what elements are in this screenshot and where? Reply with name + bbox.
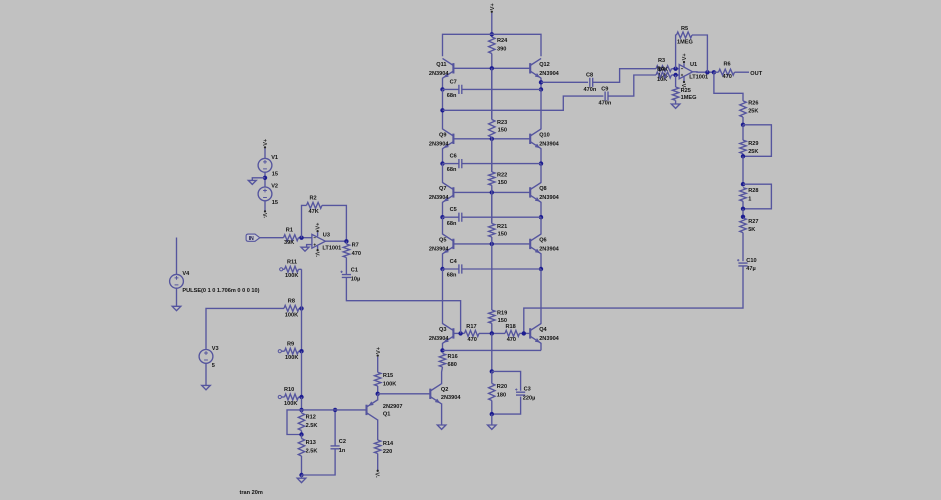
svg-text:U1: U1 [690, 62, 697, 68]
wire C3 bottom to R20 bottom [492, 397, 521, 415]
svg-text:C2: C2 [339, 439, 346, 445]
wire R28 bypass loop [743, 184, 771, 209]
label U3 LT1001 [322, 245, 341, 251]
wire dot to R29 [742, 125, 744, 140]
value R1 39K [284, 240, 294, 246]
svg-text:100K: 100K [285, 355, 298, 361]
label R21 [497, 224, 507, 230]
wire ladder column top [301, 269, 303, 308]
svg-text:2N2907: 2N2907 [383, 404, 403, 410]
label R28 [748, 188, 758, 194]
transistor Q2 [430, 384, 441, 404]
wire Q10 collector up [540, 89, 542, 129]
node cap line left dot [440, 215, 444, 219]
svg-text:R5: R5 [681, 26, 688, 32]
svg-text:2.5K: 2.5K [306, 423, 318, 429]
wire C8 to R3 [593, 69, 656, 83]
wire R14 to V- flag [377, 454, 379, 471]
voltage source V3 [199, 350, 213, 364]
svg-text:470: 470 [468, 337, 477, 343]
svg-text:Q3: Q3 [439, 327, 446, 333]
wire node2 to R22 [491, 139, 493, 172]
label C7 [450, 79, 457, 85]
svg-text:2N3904: 2N3904 [539, 195, 559, 201]
value R7 470 [352, 251, 361, 257]
wire Q5 collector up [442, 217, 444, 234]
voltage source V1 [258, 158, 272, 172]
svg-text:PULSE(0 1 0 1.706m 0 0 0 10): PULSE(0 1 0 1.706m 0 0 0 10) [182, 288, 259, 294]
wire V1 to V2 [264, 172, 266, 187]
wire R5 right leg [692, 35, 707, 72]
wire center node down to R20 node [491, 333, 493, 371]
node C2 top dot [333, 408, 337, 412]
node V1 V2 dot [263, 176, 267, 180]
wire ladder column R9-R10 [301, 351, 303, 397]
wire Q12 emitter down [540, 78, 542, 90]
svg-text:V+: V+ [682, 53, 688, 61]
wire R5 left leg [675, 35, 678, 69]
svg-text:V3: V3 [212, 346, 219, 352]
transistor Q9 [443, 129, 454, 149]
wire R17 to center node [479, 332, 505, 334]
wire Q4 collector up [540, 269, 542, 324]
overlap value 10K [658, 67, 668, 73]
wire R18 to Q4 base [520, 332, 531, 334]
value R22 150 [498, 180, 507, 186]
label R15 [383, 373, 393, 379]
node base row dot [490, 190, 494, 194]
V+ flag above R15 [376, 346, 382, 372]
svg-text:Q4: Q4 [539, 327, 547, 333]
value R11 100K [285, 273, 298, 279]
capacitor C6 [443, 159, 542, 168]
wire Q7 emitter down [442, 202, 444, 217]
value R3 10K [657, 77, 667, 83]
ground below R25 [671, 104, 680, 108]
capacitor C8 [590, 78, 593, 87]
wire out dotB to R6 [714, 71, 719, 73]
transistor Q5 [443, 234, 454, 254]
wire U3 out [325, 240, 346, 242]
transistor Q10 [530, 129, 541, 149]
V- flag below R14 [374, 470, 380, 478]
resistor R4 [656, 72, 672, 78]
wire ladder column R8-R9 [301, 308, 303, 351]
svg-text:C7: C7 [450, 79, 457, 85]
node U1 out dot A [705, 70, 709, 74]
value R9 100K [285, 355, 298, 361]
resistor R10 with open end [278, 394, 301, 400]
capacitor C10 [737, 259, 748, 266]
capacitor C2 [331, 446, 340, 449]
node R12 R13 dot [299, 432, 303, 436]
V+ power flag (top center) [490, 2, 496, 37]
value C2 1n [339, 448, 346, 454]
svg-text:V2: V2 [271, 184, 278, 190]
ground below R13 [297, 475, 306, 483]
svg-text:5: 5 [212, 363, 215, 369]
transistor Q11 [443, 58, 454, 78]
svg-text:220: 220 [383, 449, 392, 455]
label Q3 2N3904 [429, 336, 449, 342]
value R25 1MEG [681, 95, 697, 101]
wire Q5 emitter down [442, 253, 444, 269]
resistor R20 [489, 384, 495, 401]
label R25 [681, 88, 691, 94]
label C10 [746, 258, 756, 264]
wire supply mid to ground [252, 178, 265, 181]
value R29 25K [748, 149, 758, 155]
op-amp U1 [679, 65, 692, 79]
value C3 220u [523, 396, 536, 402]
svg-text:V+: V+ [316, 222, 322, 230]
label C8 [586, 72, 593, 78]
node U1 out dot B [712, 70, 716, 74]
node R9 dot [299, 349, 303, 353]
resistor R14 [375, 440, 381, 454]
svg-text:OUT: OUT [750, 71, 762, 77]
wire R4 to U1 plus [672, 74, 680, 76]
wire node1 to R23 [491, 68, 493, 119]
wire Q8 collector up [540, 164, 542, 183]
svg-text:390: 390 [497, 47, 506, 53]
wire U3 out to R7 [345, 241, 347, 244]
wire collector rail top [443, 34, 542, 56]
svg-text:470: 470 [723, 74, 732, 80]
transistor Q7 [443, 183, 454, 203]
transistor Q1 (PNP) [367, 400, 378, 420]
label U1 [690, 62, 697, 68]
label R20 [497, 384, 507, 390]
svg-text:47µ: 47µ [746, 266, 755, 272]
label Q1 2N2907 [383, 404, 403, 410]
svg-text:150: 150 [498, 318, 507, 324]
node cap line right dot [539, 87, 543, 91]
svg-text:Q7: Q7 [439, 186, 446, 192]
label C1 [351, 268, 358, 274]
label Q6 2N3904 [539, 247, 559, 253]
label R17 [466, 324, 476, 330]
svg-text:470n: 470n [584, 87, 597, 93]
label Q12 [539, 62, 550, 68]
svg-text:Q5: Q5 [439, 238, 446, 244]
svg-text:15: 15 [272, 172, 278, 178]
label Q8 2N3904 [539, 195, 559, 201]
svg-text:C10: C10 [746, 258, 756, 264]
node cap line left dot [440, 161, 444, 165]
svg-text:R15: R15 [383, 373, 393, 379]
wire Q3 emitter down [442, 343, 444, 351]
capacitor C9 [605, 92, 608, 101]
ground below Q2 [437, 425, 446, 429]
svg-text:Q1: Q1 [383, 411, 390, 417]
svg-text:C8: C8 [586, 72, 593, 78]
wire base Q9-Q10 [453, 138, 530, 140]
label R3 [658, 58, 665, 64]
label R26 [748, 100, 758, 106]
wire R12 top stub [301, 410, 303, 413]
label Q5 [439, 238, 446, 244]
svg-text:2N3904: 2N3904 [539, 141, 559, 147]
svg-text:V-: V- [314, 252, 320, 257]
resistor R13 [298, 439, 304, 457]
node R29 bottom dot [741, 154, 745, 158]
value R21 150 [498, 231, 507, 237]
wire R15 to Q1 node [377, 386, 379, 394]
value R18 470 [507, 337, 516, 343]
svg-text:LT1001: LT1001 [689, 74, 708, 80]
svg-text:47K: 47K [309, 209, 319, 215]
svg-text:Q2: Q2 [441, 387, 448, 393]
node R20 top dot [490, 369, 494, 373]
label C4 [450, 259, 458, 265]
value R8 100K [285, 312, 298, 318]
label Q2 [441, 387, 448, 393]
resistor R22 [489, 172, 495, 185]
node B1 left dot [440, 108, 444, 112]
svg-text:2N3904: 2N3904 [429, 247, 449, 253]
label Q12 2N3904 [539, 71, 559, 77]
label R10 [284, 387, 294, 393]
node Q4 base dot [522, 331, 526, 335]
svg-text:V4: V4 [182, 271, 190, 277]
wire Q1 base line [302, 409, 367, 411]
label R2 [310, 196, 317, 202]
svg-text:Q9: Q9 [439, 133, 446, 139]
wire Q4 emitter down [540, 343, 542, 351]
node R1 R2 dot [299, 236, 303, 240]
wire R8 to column [299, 307, 302, 309]
resistor R15 [375, 372, 381, 386]
node base row dot [490, 242, 494, 246]
wire stub above V4 [176, 238, 178, 275]
svg-text:C1: C1 [351, 268, 358, 274]
svg-text:R6: R6 [724, 61, 731, 67]
svg-text:R8: R8 [288, 298, 295, 304]
label Q11 2N3904 [429, 71, 449, 77]
resistor R21 [489, 224, 495, 238]
voltage source V2 [258, 187, 272, 201]
svg-text:100K: 100K [383, 381, 396, 387]
label R19 [497, 311, 507, 317]
svg-text:100K: 100K [284, 401, 297, 407]
svg-text:1MEG: 1MEG [681, 95, 697, 101]
value V2 15 [272, 200, 278, 206]
resistor R29 [740, 140, 746, 153]
node cap line left dot [440, 267, 444, 271]
svg-text:R27: R27 [748, 219, 758, 225]
svg-text:Q12: Q12 [539, 62, 550, 68]
value R14 220 [383, 449, 392, 455]
V- flag below V2 [261, 210, 267, 218]
resistor R8 [284, 305, 299, 311]
label V4 [182, 271, 190, 277]
wire Q6 collector up [540, 217, 542, 234]
node R17R18 dot [490, 331, 494, 335]
wire R29 bypass loop [743, 125, 771, 157]
svg-text:R20: R20 [497, 384, 507, 390]
label Q4 2N3904 [539, 336, 559, 342]
svg-text:V1: V1 [271, 155, 278, 161]
svg-text:R10: R10 [284, 387, 294, 393]
wire Q6 emitter down [540, 253, 542, 269]
svg-text:R28: R28 [748, 188, 758, 194]
svg-text:V+: V+ [263, 138, 269, 146]
resistor R26 [740, 101, 746, 117]
wire B1 line [443, 96, 604, 110]
ground at U3 plus [301, 247, 309, 251]
svg-text:Q6: Q6 [539, 238, 546, 244]
svg-text:Q8: Q8 [539, 186, 546, 192]
label Q2 2N3904 [441, 395, 461, 401]
label R8 [288, 298, 295, 304]
resistor R23 [489, 120, 495, 138]
node Q12 emitter dot [539, 80, 543, 84]
wire out to R26 [714, 72, 743, 101]
value C10 47u [746, 266, 755, 272]
wire bottom node to C2 [302, 449, 336, 475]
svg-text:68n: 68n [447, 167, 457, 173]
wire R2 right leg [322, 205, 346, 241]
label Q4 [539, 327, 547, 333]
svg-text:U3: U3 [323, 233, 330, 239]
value C8 470n [584, 87, 597, 93]
svg-text:2N3904: 2N3904 [539, 336, 559, 342]
node Q3 base dot [458, 331, 462, 335]
label Q6 [539, 238, 546, 244]
label Q11 [436, 62, 446, 68]
wire R23 to node2 [491, 137, 493, 139]
wire ladder column R10-R12 [301, 397, 303, 410]
resistor R2 [307, 202, 323, 208]
svg-text:R13: R13 [306, 440, 316, 446]
svg-text:R7: R7 [352, 242, 359, 248]
node R8 dot [299, 306, 303, 310]
svg-text:2N3904: 2N3904 [429, 336, 449, 342]
svg-text:R18: R18 [506, 324, 516, 330]
node R16 top dot [440, 348, 444, 352]
wire Q1 collector down to R14 [377, 419, 379, 440]
value R10 100K [284, 401, 297, 407]
port flag IN [246, 234, 260, 242]
ground at supply mid [248, 180, 256, 184]
svg-text:150: 150 [498, 180, 507, 186]
svg-text:2.5K: 2.5K [306, 449, 318, 455]
label R18 [506, 324, 516, 330]
value R27 5K [748, 227, 755, 233]
wire Q12 emitter to C8 [541, 81, 588, 83]
svg-text:R26: R26 [748, 100, 758, 106]
wire R16 to Q2 collector [441, 367, 444, 384]
label R23 [497, 120, 507, 126]
wire R6 to OUT [735, 71, 750, 73]
wire R20 bottom to ground [491, 414, 493, 425]
value R19 150 [498, 318, 507, 324]
svg-text:39K: 39K [284, 240, 294, 246]
transistor Q12 [530, 58, 541, 78]
value 390 [497, 47, 506, 53]
value R6 470 [723, 74, 732, 80]
capacitor C1 [340, 271, 351, 278]
label C5 [450, 207, 457, 213]
node base row dot [490, 137, 494, 141]
U1 V- flag [680, 76, 686, 89]
svg-text:R24: R24 [497, 38, 508, 44]
wire R25 to ground [675, 100, 677, 104]
wire base Q5-Q6 [453, 243, 530, 245]
value V1 15 [272, 172, 278, 178]
wire C2 top to Q1 base line [334, 410, 336, 446]
svg-text:R19: R19 [497, 311, 507, 317]
resistor R24 [489, 37, 495, 54]
svg-text:R25: R25 [681, 88, 691, 94]
label V1 [271, 155, 278, 161]
svg-text:R1: R1 [286, 228, 293, 234]
label Q3 [439, 327, 446, 333]
wire R29 dot to R28 dot [742, 156, 744, 184]
label C9 [601, 86, 608, 92]
wire IN to R1 [260, 237, 284, 239]
svg-text:470n: 470n [599, 101, 612, 107]
value C5 68n [447, 221, 457, 227]
resistor R19 [489, 310, 495, 323]
svg-text:C9: C9 [601, 86, 608, 92]
value R13 2.5K [306, 449, 318, 455]
wire V3 to ground [205, 363, 207, 385]
wire R7 to C1 [345, 258, 347, 275]
svg-text:5K: 5K [748, 227, 755, 233]
wire node4 to R19 [491, 244, 493, 310]
svg-text:2N3904: 2N3904 [539, 247, 559, 253]
value R26 25K [748, 108, 758, 114]
node R10 dot [299, 395, 303, 399]
resistor R1 [284, 235, 299, 241]
wire Q9 emitter down [442, 148, 444, 163]
transistor Q6 [530, 234, 541, 254]
svg-text:100K: 100K [285, 312, 298, 318]
resistor R9 with open end [278, 348, 301, 354]
wire Q1 node to Q2 base [378, 393, 431, 395]
wire R19 to R17R18 node [491, 323, 493, 333]
label R5 [681, 26, 688, 32]
wire R12 bottom stub [301, 431, 303, 435]
simulation directive tran 20m [240, 490, 263, 496]
U1 V+ flag [682, 53, 688, 68]
label U1 LT1001 [689, 74, 708, 80]
wire Q3 collector up [442, 269, 444, 324]
resistor R3 [656, 66, 672, 72]
resistor R18 [505, 330, 520, 336]
wire R20 node to C3 top [492, 371, 521, 390]
label R9 [287, 341, 294, 347]
wire V2 to V- flag [264, 201, 266, 211]
capacitor C4 [443, 264, 542, 273]
value R17 470 [468, 337, 477, 343]
svg-text:2N3904: 2N3904 [429, 71, 449, 77]
wire R2 left leg [302, 205, 307, 237]
value C9 470n [599, 101, 612, 107]
label R24 [497, 38, 508, 44]
label R14 [383, 441, 394, 447]
wire base node to R22 [491, 139, 493, 172]
node cap line right dot [539, 161, 543, 165]
resistor R28 [740, 188, 746, 202]
svg-text:R22: R22 [497, 172, 507, 178]
wire Q9 collector up [442, 89, 444, 129]
capacitor C3 [515, 388, 525, 395]
value R15 100K [383, 381, 396, 387]
svg-text:R9: R9 [287, 341, 294, 347]
